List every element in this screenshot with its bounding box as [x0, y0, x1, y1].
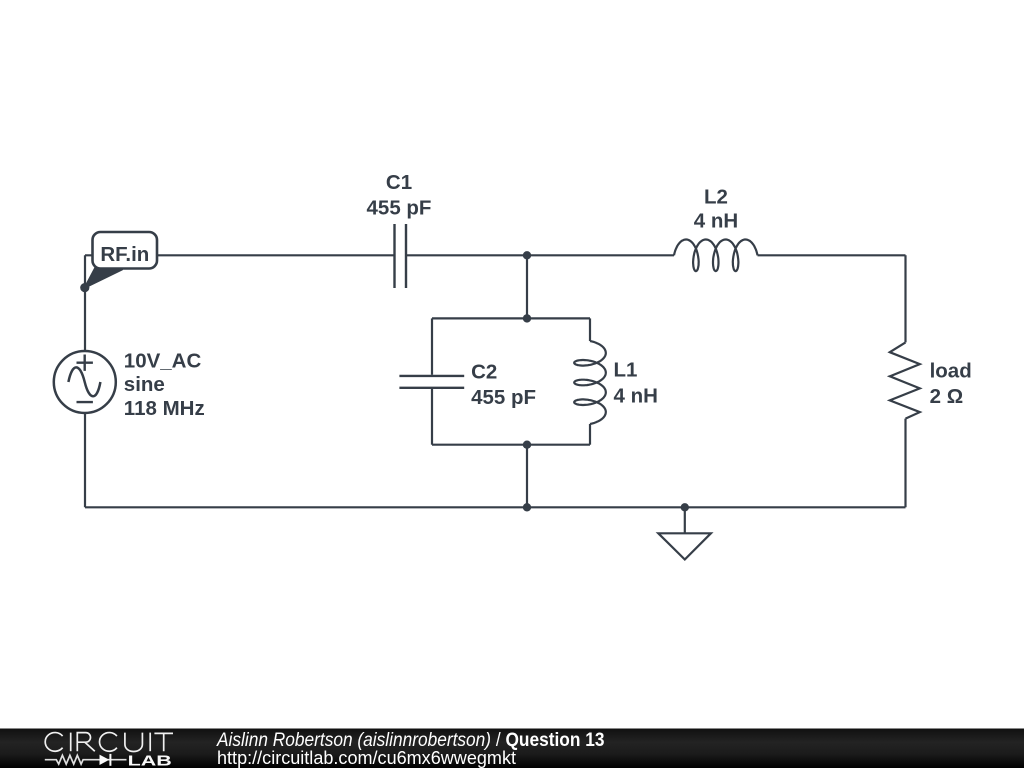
wire left rail lower [84, 413, 86, 507]
ground stub wire [684, 507, 686, 533]
wire tank left branch lower [431, 389, 433, 445]
svg-text:4 nH: 4 nH [694, 210, 738, 233]
RF.in flag box [93, 232, 158, 269]
logo diode [100, 755, 110, 765]
wire tank feed top [526, 255, 528, 318]
wire top rail right of C1 [406, 254, 674, 256]
wire tank feed bottom [526, 445, 528, 508]
wire right rail lower [904, 419, 906, 508]
node dot tank bottom [523, 441, 531, 449]
svg-text:http://circuitlab.com/cu6mx6ww: http://circuitlab.com/cu6mx6wwegmkt [217, 748, 516, 768]
wire top rail [85, 254, 394, 256]
RF.in flag tail [85, 268, 122, 288]
logo resistor zigzag [45, 755, 127, 764]
node dot tank top [523, 314, 531, 322]
resistor load [890, 342, 920, 418]
wire left rail upper [84, 255, 86, 351]
wire right rail upper [904, 255, 906, 342]
ground symbol [658, 533, 711, 559]
svg-text:10V_AC: 10V_AC [124, 349, 202, 372]
node dot bottom rail mid [523, 503, 531, 511]
voltage source V1 circle [54, 351, 116, 413]
wire tank right branch upper [589, 318, 591, 341]
wire tank bottom edge [432, 444, 590, 446]
footer bar [0, 729, 1024, 768]
svg-text:L2: L2 [704, 185, 728, 208]
svg-text:C1: C1 [386, 171, 412, 194]
svg-text:L1: L1 [614, 358, 638, 381]
svg-text:C2: C2 [471, 360, 497, 383]
voltage source sine wave [68, 367, 100, 396]
svg-text:455 pF: 455 pF [471, 386, 536, 409]
wire tank right branch lower [589, 424, 591, 445]
inductor L1 [574, 341, 606, 424]
svg-text:455 pF: 455 pF [367, 196, 432, 219]
node dot RF.in attach [80, 283, 89, 292]
svg-text:LAB: LAB [128, 752, 172, 768]
capacitor C1 [395, 224, 407, 288]
wire top rail right of L2 [758, 254, 906, 256]
svg-text:load: load [930, 359, 972, 382]
wire tank left branch upper [431, 318, 433, 374]
node dot ground junction [681, 503, 689, 511]
voltage source minus sign [77, 401, 93, 403]
inductor L2 [674, 240, 758, 272]
capacitor C2 [399, 376, 464, 388]
svg-text:RF.in: RF.in [100, 243, 149, 266]
logo CIRCUIT letters [45, 733, 173, 752]
svg-text:2 Ω: 2 Ω [930, 385, 964, 408]
svg-text:sine: sine [124, 373, 165, 396]
node dot at C1/L2 junction [523, 251, 531, 259]
voltage source plus sign [77, 355, 93, 371]
svg-text:4 nH: 4 nH [614, 385, 658, 408]
wire bottom rail [85, 506, 906, 508]
wire tank top edge [432, 317, 590, 319]
svg-text:118 MHz: 118 MHz [124, 397, 205, 420]
